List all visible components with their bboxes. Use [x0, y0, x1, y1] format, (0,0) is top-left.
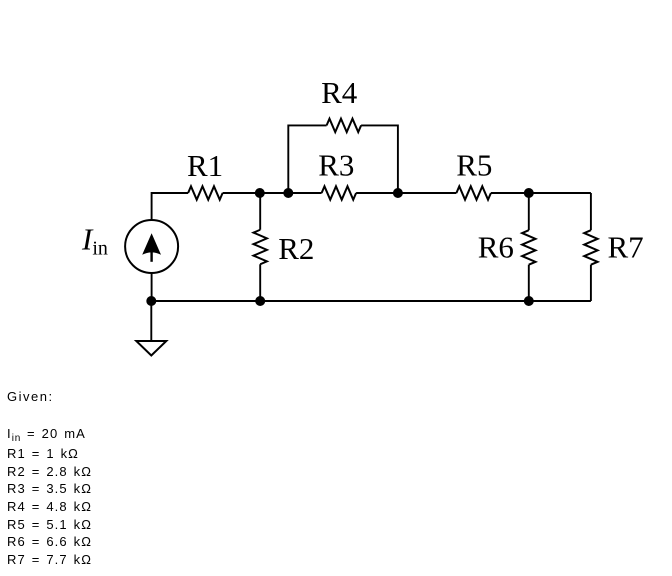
wire R2 bottom lead	[259, 264, 261, 301]
wire R3 to node C	[356, 192, 398, 194]
svg-text:R2: R2	[278, 231, 314, 266]
resistor R2	[254, 230, 267, 265]
svg-text:Iin: Iin	[81, 222, 108, 260]
node D (R6 top junction)	[524, 188, 534, 198]
wire R1 to node B	[223, 192, 289, 194]
wire bottom rail	[151, 300, 591, 302]
wire R6 bottom lead	[528, 265, 530, 301]
resistor R6	[522, 230, 535, 265]
resistor R3	[322, 186, 357, 199]
resistor R1	[188, 186, 223, 199]
wire R6 top lead	[528, 193, 530, 230]
wire R4 branch left vertical and lead	[288, 125, 326, 193]
svg-text:R1: R1	[187, 148, 223, 183]
svg-text:R7: R7	[608, 230, 644, 265]
wire node C to R5	[398, 192, 457, 194]
wire R7 bottom lead	[590, 265, 592, 301]
svg-text:R3: R3	[318, 147, 354, 182]
node E (ground junction)	[146, 296, 156, 306]
wire R4 right lead and right vertical	[361, 125, 398, 193]
ground symbol	[136, 341, 166, 356]
resistor R5	[456, 186, 491, 199]
node B (R4 branch junction)	[283, 188, 293, 198]
wire node B to R3	[288, 192, 321, 194]
ground lead wire	[150, 301, 152, 341]
wire source top to R1	[152, 193, 189, 220]
resistor R7	[584, 230, 597, 265]
current source arrow	[142, 233, 161, 262]
svg-text:R4: R4	[321, 75, 358, 110]
wire R5 to node D	[491, 192, 591, 194]
given text heading	[7, 388, 54, 406]
node G (R6 bottom junction)	[524, 296, 534, 306]
resistor R4	[327, 119, 362, 132]
node C (R3/R4 right junction)	[393, 188, 403, 198]
current source U1 circle	[125, 220, 178, 273]
node A (R2 top junction)	[255, 188, 265, 198]
svg-text:R5: R5	[456, 148, 492, 183]
wire R2 top lead	[259, 193, 261, 230]
wire R7 top lead	[590, 193, 592, 230]
node F (R2 bottom junction)	[255, 296, 265, 306]
svg-text:R6: R6	[478, 230, 514, 265]
wire source bottom lead	[151, 273, 153, 301]
given values list	[7, 425, 92, 569]
